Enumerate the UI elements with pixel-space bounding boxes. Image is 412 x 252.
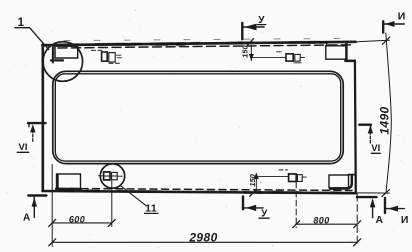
label 11 leader line	[120, 185, 146, 205]
hidden dashed line above bottom edge	[58, 188, 352, 190]
svg-text:600: 600	[69, 214, 85, 224]
svg-text:VI: VI	[371, 143, 380, 154]
view mark VI right: arrow shaft	[369, 133, 371, 144]
detail circle 11	[100, 164, 124, 188]
dim 150 top: down arrowhead	[249, 54, 254, 61]
1490 top tick	[382, 37, 389, 44]
dim 150 bottom: up arrowhead	[254, 172, 259, 179]
section mark A right: arrowhead	[370, 198, 375, 207]
svg-text:И: И	[398, 10, 406, 22]
view mark VI left: arrowhead	[30, 124, 35, 132]
dim 1490: vertical line	[386, 33, 392, 193]
dim 800: dimension line	[296, 223, 357, 225]
leader from 150 dim to item M2	[252, 56, 286, 58]
panel outer right edge	[354, 61, 357, 194]
recess inner rounded rect inner line	[55, 74, 340, 161]
1490 bottom tick	[382, 190, 389, 197]
svg-text:VI: VI	[19, 142, 28, 153]
label U bottom underline	[259, 217, 269, 219]
svg-text:1: 1	[18, 17, 25, 29]
embedded item M3 in circle 11	[98, 172, 122, 180]
embedded item M2 top-right (x~293)	[277, 52, 305, 63]
section mark A right: bar	[357, 196, 377, 198]
view mark VI right: arrowhead	[368, 125, 373, 133]
section mark I top: arrow line	[384, 23, 404, 25]
svg-text:1490: 1490	[378, 106, 392, 134]
view mark VI right: bar	[359, 123, 371, 125]
panel outer bottom edge	[43, 191, 356, 193]
detail circle 1 around top-left plate	[43, 42, 83, 82]
section mark A left: arrowhead	[32, 197, 37, 206]
label U top underline	[257, 24, 265, 26]
section mark U top: arrowhead	[244, 24, 256, 31]
svg-text:150: 150	[248, 173, 257, 186]
corner plate bottom-right	[329, 175, 355, 189]
view mark VI left: arrow shaft	[32, 131, 34, 141]
section mark U top: tick at edge	[248, 39, 254, 45]
view mark VI left: corner tick	[28, 123, 30, 127]
section mark U bottom: arrow line	[244, 207, 264, 209]
svg-text:800: 800	[313, 215, 329, 225]
dim 800: left tick	[293, 221, 300, 228]
bottom edge extension to 1490 line	[357, 192, 390, 194]
dim 800: extension line from item M4	[295, 182, 297, 228]
leader from 150 dim to item M4	[256, 176, 288, 178]
svg-text:А: А	[23, 212, 30, 223]
svg-text:У: У	[258, 15, 265, 26]
tick where 150 line crosses bottom edge	[250, 191, 255, 197]
section mark I bottom: bar	[384, 198, 386, 213]
dim 150 bottom: line	[255, 175, 257, 193]
section mark A right: arrow shaft	[372, 201, 374, 218]
section mark I bottom: arrow line	[386, 208, 404, 210]
embedded item M4 bottom-right (x~295)	[279, 170, 306, 182]
view mark VI right: corner drop	[370, 125, 372, 131]
embedded item M1 top-left (x~110)	[92, 50, 122, 63]
corner plate top-left	[51, 46, 78, 62]
corner plate top-right	[326, 42, 355, 61]
svg-text:И: И	[401, 214, 409, 226]
section mark U top: bar	[241, 23, 243, 39]
view mark VI left: bar	[28, 122, 46, 124]
section mark U top: arrow line	[243, 26, 264, 28]
dim 600: right tick	[108, 219, 115, 226]
svg-text:А: А	[376, 214, 384, 226]
dim 2980: left tick	[49, 239, 56, 246]
svg-text:2980: 2980	[188, 231, 217, 245]
label VI right underline	[371, 152, 380, 154]
dim 800: right tick	[354, 221, 361, 228]
dim 600: left tick	[49, 219, 56, 226]
hidden dashed line below top edge	[58, 45, 352, 48]
dim 2980: dimension line	[52, 241, 357, 243]
label 1 leader line	[15, 28, 49, 50]
dim 600: right extension line (from item M3)	[111, 180, 113, 227]
panel outer left edge	[41, 45, 44, 191]
section mark A left: arrow shaft	[33, 197, 35, 218]
dim 600: dimension line	[52, 222, 112, 224]
dim 2980: right tick	[354, 239, 361, 246]
section mark I bottom: arrowhead	[388, 206, 398, 212]
section mark U bottom: bar	[242, 197, 244, 210]
section mark I top: arrowhead	[385, 21, 395, 27]
blotchy overdraw on top edge	[60, 42, 318, 45]
dim 150 top: line	[250, 46, 252, 61]
svg-text:У: У	[261, 208, 268, 219]
top edge extension to 1490 line	[357, 40, 390, 42]
svg-text:150: 150	[240, 45, 249, 58]
faint dashed segment on right edge above BR plate	[354, 164, 356, 175]
sparse dashed line above top edge	[64, 38, 348, 40]
blotchy overdraw on bottom edge	[70, 191, 300, 193]
label 11 underline	[145, 212, 159, 214]
dim 600: left extension line	[51, 165, 53, 247]
section mark U bottom: arrowhead	[246, 205, 256, 211]
right extension line (A-A cut, dashed)	[356, 194, 358, 246]
section mark I top: bar	[382, 21, 384, 32]
corner plate bottom-left	[56, 174, 81, 189]
recess inner rounded rect outer line	[53, 71, 343, 163]
label VI left underline	[17, 151, 29, 153]
svg-text:11: 11	[145, 203, 157, 215]
panel outer top edge	[43, 42, 356, 45]
section mark A left: bar	[28, 194, 46, 196]
